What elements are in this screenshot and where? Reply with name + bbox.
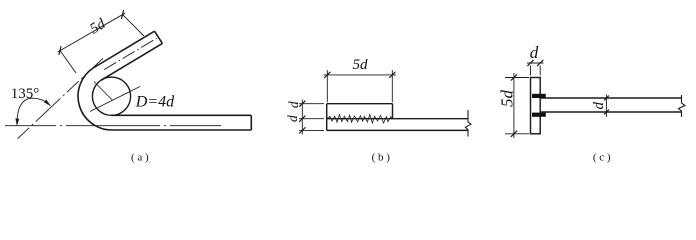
svg-text:d: d bbox=[591, 102, 607, 110]
svg-text:d: d bbox=[530, 43, 539, 62]
svg-text:( b ): ( b ) bbox=[372, 152, 391, 164]
svg-text:5d: 5d bbox=[497, 90, 516, 108]
svg-text:D=4d: D=4d bbox=[135, 94, 175, 111]
svg-text:( a ): ( a ) bbox=[131, 152, 149, 164]
svg-text:d: d bbox=[285, 115, 300, 122]
svg-text:d: d bbox=[286, 101, 301, 108]
svg-text:135°: 135° bbox=[11, 86, 40, 102]
svg-text:5d: 5d bbox=[353, 57, 369, 73]
svg-text:( c ): ( c ) bbox=[593, 152, 611, 164]
